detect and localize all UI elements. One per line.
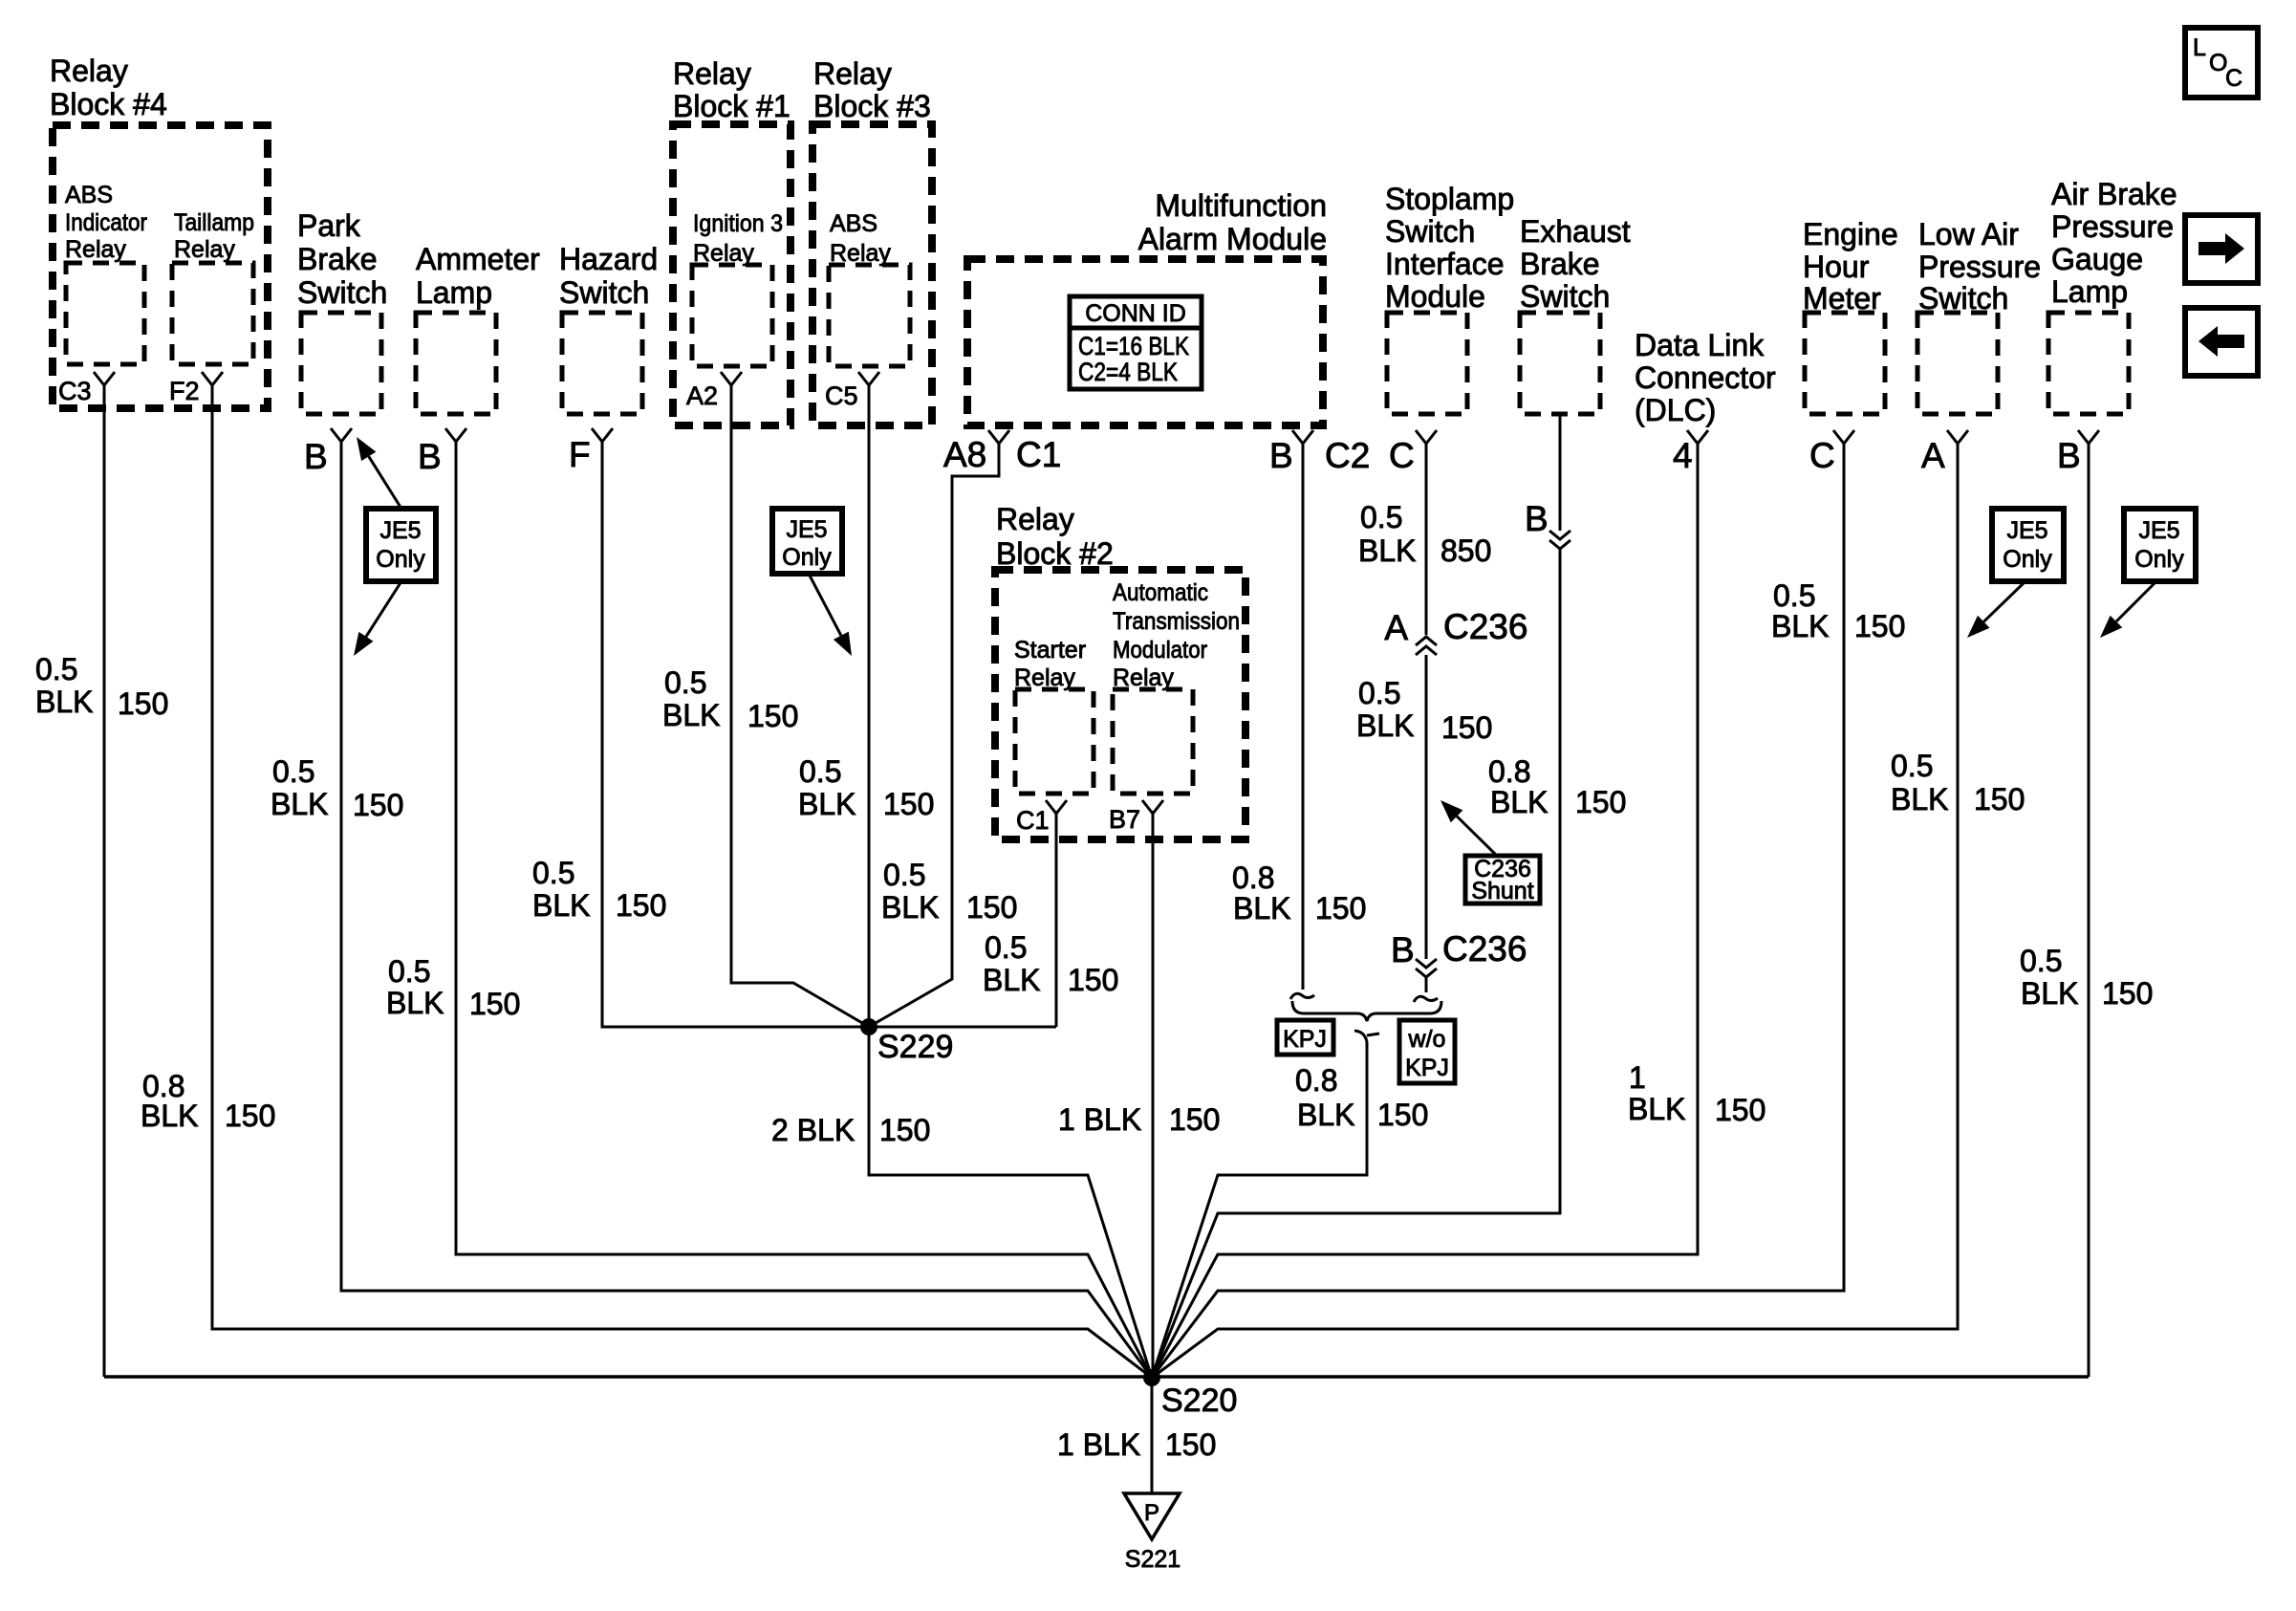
svg-text:Pressure: Pressure <box>1918 250 2041 284</box>
svg-text:Lamp: Lamp <box>416 275 492 310</box>
svg-text:1 BLK: 1 BLK <box>1057 1427 1140 1462</box>
wire S229 to S220 2 BLK 150 <box>869 1027 1152 1378</box>
right arrow box <box>2185 215 2258 283</box>
wire ABS relay ground 0.5 BLK 150 <box>868 385 871 1027</box>
svg-text:C3: C3 <box>58 377 92 405</box>
wire stoplamp 0.5 BLK 150 <box>1425 655 1428 959</box>
svg-text:0.5: 0.5 <box>1891 749 1933 783</box>
taillamp relay box <box>172 263 253 364</box>
svg-text:BLK: BLK <box>1771 609 1829 643</box>
connector B air brake lamp <box>2078 430 2099 444</box>
svg-text:Relay: Relay <box>673 56 751 91</box>
arrow JE5 to low air wire <box>1983 581 2025 621</box>
svg-text:Multifunction: Multifunction <box>1155 188 1327 223</box>
svg-text:0.5: 0.5 <box>388 954 430 989</box>
svg-text:C: C <box>2225 65 2242 92</box>
svg-text:2 BLK: 2 BLK <box>771 1113 855 1147</box>
svg-text:C1=16 BLK: C1=16 BLK <box>1078 332 1189 360</box>
svg-text:Relay: Relay <box>174 236 235 263</box>
relay block #1 box <box>673 124 791 425</box>
arrow JE5 to park brake wire <box>366 581 401 637</box>
wire engine hour meter ground 0.5 BLK 150 <box>1152 444 1844 1378</box>
svg-text:Brake: Brake <box>1520 247 1600 281</box>
connector B7 <box>1142 800 1163 814</box>
svg-text:JE5: JE5 <box>2006 517 2047 544</box>
wire S229 junction horizontal <box>869 1026 1056 1029</box>
svg-text:Module: Module <box>1385 279 1485 314</box>
svg-text:BLK: BLK <box>662 698 720 732</box>
svg-text:Relay: Relay <box>813 56 892 91</box>
svg-text:B: B <box>418 437 442 476</box>
svg-text:Pressure: Pressure <box>2051 209 2174 244</box>
low air pressure switch box <box>1917 313 1998 414</box>
svg-text:0.8: 0.8 <box>1295 1063 1337 1098</box>
svg-text:Only: Only <box>2003 546 2052 573</box>
svg-text:150: 150 <box>1974 782 2025 816</box>
wire exhaust brake switch B <box>1559 414 1562 531</box>
arrow C236 shunt to stoplamp wire <box>1457 816 1497 856</box>
svg-text:S221: S221 <box>1125 1546 1180 1573</box>
svg-text:1: 1 <box>1629 1060 1646 1095</box>
svg-text:A2: A2 <box>686 381 718 410</box>
wire DLC ground 1 BLK 150 <box>1152 444 1698 1378</box>
svg-text:150: 150 <box>469 987 520 1021</box>
svg-text:0.5: 0.5 <box>532 856 574 890</box>
wire multifunction C2 ground 0.8 BLK 150 <box>1302 444 1305 990</box>
inline connector C236 terminal A <box>1416 637 1437 645</box>
svg-text:A8: A8 <box>943 435 986 474</box>
JE5 only callout (low air pressure wire) <box>1992 509 2064 581</box>
wire exhaust ground 0.8 BLK 150 <box>1152 549 1560 1378</box>
svg-text:CONN ID: CONN ID <box>1085 300 1186 327</box>
engine hour meter box <box>1805 313 1885 414</box>
svg-text:BLK: BLK <box>2021 976 2078 1011</box>
relay block #2 box <box>995 570 1245 839</box>
svg-text:(DLC): (DLC) <box>1635 393 1716 427</box>
svg-text:Block #3: Block #3 <box>813 89 931 123</box>
svg-text:Indicator: Indicator <box>65 209 147 236</box>
svg-text:C2: C2 <box>1325 436 1370 475</box>
connector F hazard <box>592 428 613 442</box>
svg-text:L: L <box>2193 34 2206 61</box>
connector B ammeter <box>445 428 466 442</box>
connector B park brake <box>331 428 352 442</box>
svg-text:0.5: 0.5 <box>272 754 314 789</box>
wire C3 ground 0.5 BLK 150 <box>103 385 106 1377</box>
svg-text:150: 150 <box>616 888 666 923</box>
svg-text:150: 150 <box>225 1099 275 1133</box>
svg-text:Transmission: Transmission <box>1113 608 1240 635</box>
C236 shunt callout <box>1465 856 1540 903</box>
svg-text:150: 150 <box>879 1113 930 1147</box>
svg-text:Data Link: Data Link <box>1635 328 1765 362</box>
svg-text:Block #4: Block #4 <box>50 87 167 121</box>
JE5 only callout (ABS relay wire) <box>772 509 842 574</box>
svg-text:JE5: JE5 <box>786 516 827 543</box>
svg-text:0.5: 0.5 <box>35 652 77 686</box>
svg-text:A: A <box>1384 608 1408 647</box>
svg-text:Automatic: Automatic <box>1113 579 1208 606</box>
svg-text:Ammeter: Ammeter <box>416 242 540 276</box>
svg-text:Taillamp: Taillamp <box>174 209 254 236</box>
multifunction alarm module box <box>967 259 1323 425</box>
svg-text:Switch: Switch <box>1385 214 1475 249</box>
svg-text:BLK: BLK <box>532 888 590 923</box>
LOC legend box <box>2185 28 2258 98</box>
svg-text:B7: B7 <box>1109 805 1140 834</box>
splice S220 <box>1143 1369 1160 1386</box>
CONN ID table <box>1070 296 1202 389</box>
svg-text:150: 150 <box>353 788 403 822</box>
svg-text:BLK: BLK <box>1356 708 1414 743</box>
svg-text:BLK: BLK <box>1628 1092 1685 1126</box>
svg-text:0.8: 0.8 <box>1488 754 1530 789</box>
wire S220 to ground 1 BLK 150 <box>1151 1378 1154 1493</box>
svg-text:150: 150 <box>1854 609 1905 643</box>
svg-text:Lamp: Lamp <box>2051 274 2128 309</box>
svg-text:Stoplamp: Stoplamp <box>1385 182 1514 216</box>
svg-text:A: A <box>1921 436 1945 475</box>
svg-text:150: 150 <box>2102 976 2153 1011</box>
wire park brake ground 0.5 BLK 150 <box>341 442 1152 1378</box>
svg-text:150: 150 <box>1165 1427 1216 1462</box>
air brake pressure gauge lamp box <box>2048 313 2129 414</box>
svg-text:B: B <box>2057 436 2081 475</box>
svg-text:F2: F2 <box>169 377 200 405</box>
svg-text:B: B <box>304 437 328 476</box>
wire ATM relay B7 ground 1 BLK 150 <box>1152 811 1155 1378</box>
svg-text:0.5: 0.5 <box>1773 578 1815 613</box>
ABS relay box <box>829 265 910 366</box>
svg-text:C1: C1 <box>1016 806 1050 835</box>
svg-text:Switch: Switch <box>559 275 649 310</box>
svg-text:Ignition 3: Ignition 3 <box>693 210 783 237</box>
svg-text:C1: C1 <box>1016 435 1061 474</box>
svg-text:Switch: Switch <box>297 275 387 310</box>
connector C1 (A8) <box>988 430 1009 444</box>
arrow JE5 to park brake connector <box>369 456 401 509</box>
svg-text:C: C <box>1389 436 1415 475</box>
inline connector C236 terminal B <box>1416 959 1437 968</box>
connector A2 <box>721 372 742 385</box>
svg-text:Starter: Starter <box>1014 637 1086 664</box>
svg-text:Low Air: Low Air <box>1918 217 2019 251</box>
connector 4 DLC <box>1687 430 1708 444</box>
svg-text:150: 150 <box>1068 963 1118 997</box>
arrow JE5 to air brake wire <box>2116 581 2156 621</box>
wire hazard ground 0.5 BLK 150 <box>602 442 869 1027</box>
svg-text:Alarm Module: Alarm Module <box>1138 222 1327 256</box>
svg-text:B: B <box>1391 930 1415 969</box>
svg-text:BLK: BLK <box>881 890 939 925</box>
relay block #4 box <box>53 125 268 408</box>
stoplamp switch interface module box <box>1387 313 1467 414</box>
svg-text:Brake: Brake <box>297 242 378 276</box>
connector A low air pressure <box>1947 430 1968 444</box>
ammeter lamp box <box>416 313 496 414</box>
svg-text:P: P <box>1144 1500 1159 1526</box>
svg-text:150: 150 <box>1575 785 1626 819</box>
svg-text:Block #2: Block #2 <box>996 536 1114 571</box>
svg-text:4: 4 <box>1673 436 1693 475</box>
starter relay box <box>1015 689 1094 794</box>
svg-text:w/o: w/o <box>1408 1026 1446 1053</box>
w/o KPJ option box <box>1399 1020 1455 1083</box>
svg-text:Relay: Relay <box>50 54 128 88</box>
svg-text:BLK: BLK <box>1891 782 1948 816</box>
svg-text:BLK: BLK <box>1233 891 1290 925</box>
JE5 only callout (air brake lamp wire) <box>2124 509 2196 581</box>
svg-text:Hazard: Hazard <box>559 242 658 276</box>
connector C1 starter <box>1046 800 1067 814</box>
svg-text:Hour: Hour <box>1803 250 1870 284</box>
svg-text:C5: C5 <box>825 381 858 410</box>
svg-text:0.8: 0.8 <box>1232 860 1274 895</box>
svg-text:C236: C236 <box>1443 607 1527 646</box>
svg-text:150: 150 <box>747 699 798 733</box>
svg-text:BLK: BLK <box>983 963 1040 997</box>
svg-text:Only: Only <box>2134 546 2184 573</box>
ignition 3 relay box <box>692 265 772 366</box>
svg-text:Block #1: Block #1 <box>673 89 791 123</box>
wire end curl C2 <box>1290 993 1314 999</box>
svg-text:Air Brake: Air Brake <box>2051 177 2177 211</box>
svg-text:BLK: BLK <box>271 787 328 821</box>
wire F2 ground 0.8 BLK 150 <box>212 385 1152 1378</box>
svg-text:150: 150 <box>966 890 1017 925</box>
relay block #3 box <box>812 124 932 425</box>
svg-text:Engine: Engine <box>1803 217 1898 251</box>
svg-text:Relay: Relay <box>996 502 1074 536</box>
svg-text:150: 150 <box>1315 891 1366 925</box>
wire main ground bus <box>104 1375 2089 1379</box>
svg-text:1 BLK: 1 BLK <box>1058 1102 1141 1137</box>
svg-text:ABS: ABS <box>830 210 877 237</box>
svg-text:C236: C236 <box>1442 929 1527 969</box>
svg-text:Park: Park <box>297 208 361 243</box>
wire KPJ to S220 0.8 BLK 150 <box>1152 1042 1367 1378</box>
svg-text:BLK: BLK <box>141 1099 198 1133</box>
exhaust brake switch box <box>1520 313 1600 414</box>
connector C engine hour meter <box>1833 430 1854 444</box>
svg-text:F: F <box>569 435 591 474</box>
wire multifunction A8 ground 0.5 BLK 150 <box>869 444 999 1027</box>
brace grouping C2 and stoplamp pigtails <box>1292 1001 1441 1021</box>
wire starter relay C1 ground 0.5 BLK 150 <box>1055 811 1058 1027</box>
svg-text:BLK: BLK <box>1297 1098 1354 1132</box>
wire stoplamp C ground 0.5 BLK 850 <box>1425 444 1428 635</box>
svg-text:JE5: JE5 <box>379 517 421 544</box>
svg-text:KPJ: KPJ <box>1405 1055 1449 1081</box>
svg-text:Modulator: Modulator <box>1113 637 1207 664</box>
ABS indicator relay box <box>66 263 144 364</box>
svg-text:C: C <box>1809 436 1835 475</box>
svg-text:150: 150 <box>1441 710 1492 745</box>
automatic transmission modulator relay box <box>1113 689 1193 794</box>
wire ignition3 ground 0.5 BLK 150 <box>731 385 869 1027</box>
svg-text:S220: S220 <box>1161 1382 1237 1419</box>
connector F2 <box>202 372 223 385</box>
JE5 only callout (park brake) <box>366 509 436 581</box>
svg-text:BLK: BLK <box>798 787 856 821</box>
svg-text:B: B <box>1269 436 1293 475</box>
svg-text:S229: S229 <box>877 1029 953 1065</box>
ground symbol P (S221) <box>1124 1493 1180 1539</box>
svg-text:Only: Only <box>782 544 832 571</box>
svg-text:150: 150 <box>1715 1093 1765 1127</box>
connector C5 <box>858 372 879 385</box>
svg-text:Exhaust: Exhaust <box>1520 214 1631 249</box>
svg-text:KPJ: KPJ <box>1283 1026 1327 1053</box>
svg-text:150: 150 <box>883 787 934 821</box>
svg-text:Gauge: Gauge <box>2051 242 2143 276</box>
svg-text:C2=4 BLK: C2=4 BLK <box>1078 358 1178 386</box>
hazard switch box <box>562 313 642 414</box>
svg-text:Shunt: Shunt <box>1471 878 1533 904</box>
park brake switch box <box>301 313 381 414</box>
arrow JE5 to ABS relay wire <box>809 574 841 636</box>
wire ammeter ground 0.5 BLK 150 <box>456 442 1152 1378</box>
svg-text:B: B <box>1525 499 1549 538</box>
svg-text:0.5: 0.5 <box>883 858 925 892</box>
connector C3 <box>94 372 115 385</box>
svg-text:0.5: 0.5 <box>985 930 1027 965</box>
svg-text:0.5: 0.5 <box>799 754 841 789</box>
svg-text:0.5: 0.5 <box>1358 676 1400 710</box>
svg-text:BLK: BLK <box>35 685 93 719</box>
svg-text:BLK: BLK <box>386 986 444 1020</box>
svg-text:JE5: JE5 <box>2138 517 2179 544</box>
hook on KPJ wire <box>1354 1031 1367 1042</box>
svg-text:150: 150 <box>118 686 168 721</box>
connector C2 (B) <box>1292 430 1313 444</box>
svg-text:Switch: Switch <box>1520 279 1610 314</box>
connector C stoplamp <box>1416 430 1437 444</box>
svg-text:Relay: Relay <box>65 236 126 263</box>
svg-text:Interface: Interface <box>1385 247 1505 281</box>
svg-text:Only: Only <box>376 546 425 573</box>
wire low air pressure ground 0.5 BLK 150 <box>1152 444 1958 1378</box>
svg-text:0.5: 0.5 <box>2020 944 2062 978</box>
svg-text:0.5: 0.5 <box>1360 500 1402 534</box>
svg-text:150: 150 <box>1169 1102 1220 1137</box>
svg-text:850: 850 <box>1440 533 1491 568</box>
wire air brake lamp ground 0.5 BLK 150 <box>2088 444 2090 1377</box>
KPJ option box <box>1277 1020 1333 1055</box>
splice S229 <box>860 1018 877 1035</box>
wire end curl stoplamp <box>1414 996 1438 1002</box>
svg-text:Connector: Connector <box>1635 360 1776 395</box>
svg-text:0.5: 0.5 <box>664 665 706 700</box>
svg-text:150: 150 <box>1377 1098 1428 1132</box>
svg-text:BLK: BLK <box>1358 533 1416 568</box>
svg-text:BLK: BLK <box>1490 785 1548 819</box>
svg-text:ABS: ABS <box>65 182 113 208</box>
left arrow box <box>2185 308 2258 376</box>
